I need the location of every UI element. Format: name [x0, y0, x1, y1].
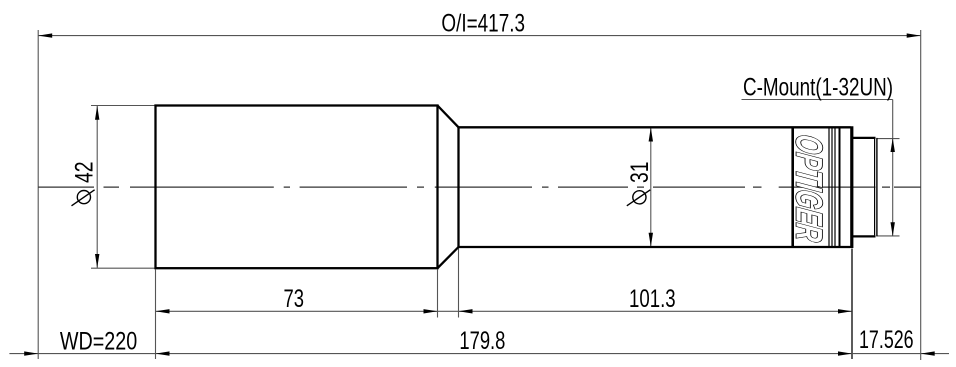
small cylinder top: [459, 126, 851, 128]
small cylinder left face: [457, 127, 459, 247]
extension line flange: [851, 249, 853, 360]
dimension line WD / 179.8 / 17.526: [9, 353, 949, 355]
label dia42 symbol: [72, 190, 95, 206]
dia42 bottom arrow: [95, 254, 99, 268]
179.8 right arrow: [838, 351, 852, 355]
end face: [850, 126, 853, 248]
dimension line c-mount leader vertical: [892, 100, 894, 237]
center line: [38, 186, 921, 188]
thread bottom: [853, 235, 876, 237]
O/I right arrow: [907, 33, 921, 37]
dia31 top arrow: [649, 128, 653, 142]
taper bottom: [438, 247, 459, 268]
label dia31 symbol: [627, 190, 651, 206]
extension line right (image plane): [920, 30, 922, 360]
svg-text:17.526: 17.526: [859, 326, 914, 354]
dimension line dia31: [650, 128, 652, 247]
thread top: [853, 137, 876, 139]
thread right face: [876, 138, 878, 237]
101.3 right arrow: [838, 309, 852, 313]
dimension line O/I: [38, 35, 921, 37]
dimension line 73 and 101.3: [156, 310, 853, 312]
extension c-mount top: [878, 138, 900, 140]
label dia31 digits (rotated): [626, 162, 654, 184]
extension line left (object plane): [37, 30, 39, 359]
small cylinder bottom: [459, 246, 851, 248]
lens outline: [156, 106, 877, 269]
c-mount bottom arrow: [891, 222, 895, 236]
svg-text:42: 42: [71, 162, 99, 184]
svg-text:73: 73: [284, 285, 305, 313]
label dia42 digits (rotated): [71, 162, 99, 184]
svg-text:31: 31: [626, 162, 654, 184]
extension line big cyl right face: [437, 270, 439, 318]
extension c-mount bottom: [878, 235, 900, 237]
c-mount top arrow: [891, 138, 895, 152]
leader underline c-mount: [742, 99, 893, 101]
O/I left arrow: [38, 33, 52, 37]
dia31 bottom arrow: [649, 233, 653, 247]
73 right arrow: [424, 309, 438, 313]
extension lines dia42: [91, 105, 155, 107]
extension line small cyl left: [458, 249, 460, 318]
big cylinder: [156, 106, 438, 269]
svg-text:O/I=417.3: O/I=417.3: [441, 9, 525, 37]
extension line big cyl left face: [155, 270, 157, 360]
svg-text:WD=220: WD=220: [60, 328, 137, 356]
dia42 top arrow: [95, 106, 99, 120]
thread inner line: [874, 139, 876, 235]
groove lines: [828, 127, 830, 247]
179.8 left arrow: [156, 351, 170, 355]
WD left outside arrow: [24, 351, 38, 355]
svg-text:179.8: 179.8: [459, 327, 505, 355]
taper top: [438, 106, 459, 128]
svg-text:C-Mount(1-32UN): C-Mount(1-32UN): [743, 73, 893, 101]
17.526 outside arrow: [921, 351, 935, 355]
svg-text:101.3: 101.3: [629, 285, 676, 313]
svg-text:OPTIGER: OPTIGER: [789, 132, 831, 244]
ring line: [791, 127, 794, 247]
73 left arrow: [156, 309, 170, 313]
dimension line dia42: [96, 106, 98, 268]
101.3 left arrow: [459, 309, 473, 313]
